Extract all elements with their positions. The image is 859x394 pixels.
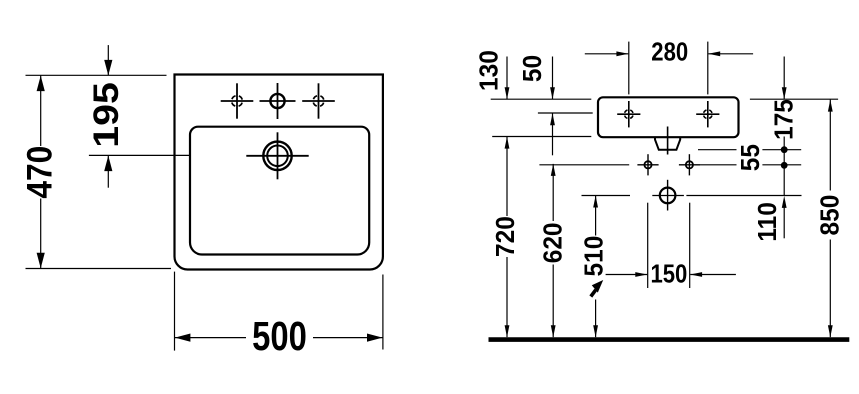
- svg-text:620: 620: [539, 223, 568, 264]
- svg-text:720: 720: [491, 216, 520, 257]
- svg-text:195: 195: [86, 82, 126, 148]
- svg-text:510: 510: [580, 236, 609, 277]
- svg-text:850: 850: [816, 195, 845, 236]
- svg-text:130: 130: [475, 50, 504, 91]
- svg-text:500: 500: [252, 312, 307, 358]
- svg-text:470: 470: [21, 146, 60, 199]
- svg-text:55: 55: [736, 144, 765, 171]
- svg-text:150: 150: [650, 260, 687, 289]
- svg-text:280: 280: [651, 38, 688, 67]
- svg-text:175: 175: [770, 99, 799, 140]
- svg-text:50: 50: [519, 55, 548, 82]
- svg-text:110: 110: [753, 202, 782, 241]
